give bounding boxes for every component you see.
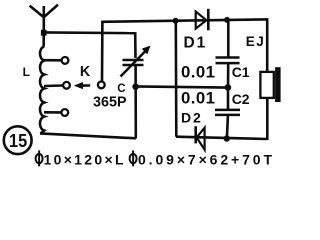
- wire middle rail: [136, 86, 229, 87]
- speaker EJ body: [260, 72, 273, 98]
- node top rail junction left: [173, 18, 179, 24]
- svg-text:L: L: [23, 65, 30, 79]
- capacitor C1 lead bottom: [227, 64, 230, 87]
- wire antenna horizontal: [44, 31, 136, 34]
- capacitor C2 lead top: [227, 88, 230, 110]
- capacitor C1 lead top: [227, 20, 230, 58]
- variable capacitor C arrow: [121, 51, 146, 77]
- svg-text:10×120×L: 10×120×L: [44, 152, 124, 168]
- wire top rail: [101, 19, 267, 21]
- variable capacitor C plates: [123, 60, 144, 65]
- wire tank vertical: [134, 32, 137, 138]
- capacitor C2 lead bottom: [227, 116, 228, 139]
- svg-text:D2: D2: [181, 109, 201, 125]
- svg-text:EJ: EJ: [246, 34, 266, 49]
- svg-text:C1: C1: [232, 64, 250, 80]
- svg-text:D1: D1: [184, 35, 206, 52]
- node tap2 terminal: [63, 82, 70, 89]
- caption phi symbol 1: [36, 150, 43, 166]
- wire left wall (D1 anode down to D2): [175, 21, 178, 137]
- wire tap3: [44, 111, 61, 114]
- node C1/C2 junction: [225, 84, 232, 91]
- wire switch pole up to top rail: [101, 22, 104, 82]
- node tap1 terminal: [62, 57, 69, 64]
- wire antenna to coil top: [42, 30, 45, 47]
- figure number 15 circle: [4, 126, 32, 154]
- wire right wall top (to speaker): [266, 18, 269, 72]
- speaker EJ diaphragm bar: [275, 67, 281, 102]
- svg-text:0.09×7×62+70T: 0.09×7×62+70T: [138, 152, 272, 168]
- svg-text:K: K: [80, 64, 91, 80]
- node tank top junction: [132, 83, 139, 90]
- svg-text:0.01: 0.01: [181, 62, 215, 81]
- wire switch arm: [83, 84, 91, 87]
- wire tap1: [44, 59, 61, 62]
- node antenna junction: [41, 30, 47, 36]
- svg-text:C: C: [117, 83, 125, 95]
- svg-text:365P: 365P: [93, 94, 127, 110]
- svg-text:C2: C2: [232, 91, 250, 107]
- capacitor C1 plates: [216, 58, 240, 64]
- inductor L: [40, 47, 44, 134]
- node switch pole terminal: [98, 82, 105, 89]
- capacitor C2 plates: [215, 110, 240, 115]
- wire bottom rail: [176, 137, 267, 139]
- svg-text:15: 15: [9, 130, 27, 151]
- wire tap2: [44, 84, 63, 87]
- wire right wall bottom: [266, 98, 269, 141]
- caption phi symbol 2: [130, 150, 137, 166]
- svg-text:0.01: 0.01: [181, 89, 215, 108]
- node bottom rail junction: [224, 135, 230, 141]
- diode D1: [196, 9, 209, 31]
- node tap3 terminal: [61, 109, 68, 116]
- wire tank bottom: [40, 133, 136, 138]
- antenna: [30, 5, 58, 32]
- diode D2: [196, 126, 205, 150]
- node top rail junction right: [224, 17, 230, 23]
- switch K wiper arrow: [74, 82, 83, 89]
